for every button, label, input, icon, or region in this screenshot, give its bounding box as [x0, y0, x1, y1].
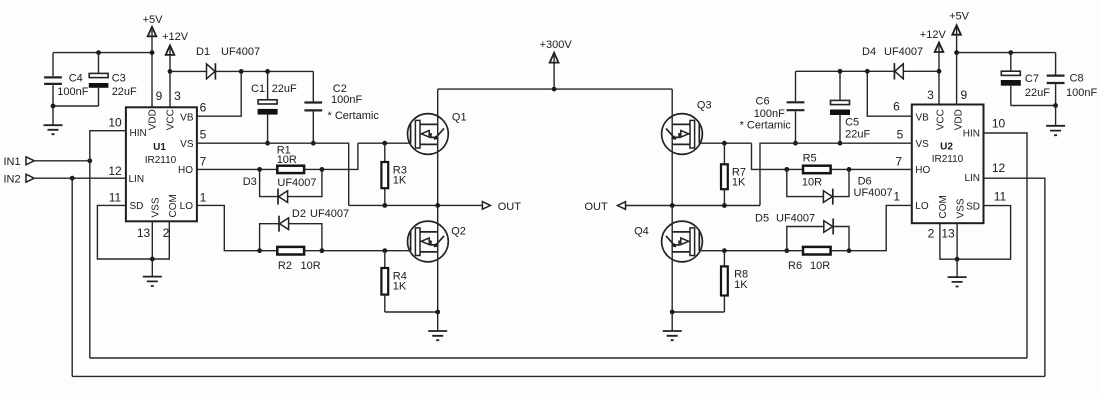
capacitor C3	[53, 53, 137, 106]
wire OUT left	[349, 204, 483, 206]
node R1 right junction	[320, 167, 325, 172]
svg-text:R6: R6	[788, 260, 802, 272]
svg-text:1K: 1K	[393, 175, 407, 187]
capacitor C8	[1047, 53, 1098, 106]
svg-text:IR2110: IR2110	[145, 155, 177, 166]
svg-text:11: 11	[994, 189, 1007, 203]
wire Q1 gate row	[358, 142, 411, 144]
node +5V/VDD junction U2	[954, 50, 959, 55]
svg-text:+300V: +300V	[540, 39, 573, 51]
node R6 right junction	[847, 248, 852, 253]
wire +5V rail to C4 C3	[53, 52, 152, 54]
svg-text:D1: D1	[196, 46, 210, 58]
node +12V/D1 junction	[168, 69, 173, 74]
node R1 left junction	[257, 167, 262, 172]
wire Q2 drain column	[437, 205, 439, 312]
wire bottom feedback lower	[72, 375, 1045, 377]
node C5 top junction	[838, 69, 843, 74]
node Q4 ground junction	[670, 310, 675, 315]
svg-text:U2: U2	[940, 142, 953, 153]
svg-text:C3: C3	[112, 73, 126, 85]
svg-text:IR2110: IR2110	[932, 154, 964, 165]
capacitor C2	[304, 71, 379, 143]
capacitor C7	[1001, 53, 1050, 106]
svg-text:OUT: OUT	[585, 201, 609, 213]
svg-text:+12V: +12V	[162, 31, 189, 43]
ground below U2	[948, 259, 967, 286]
resistor R5	[802, 153, 831, 189]
wire SD U1	[97, 205, 152, 259]
diode D2	[260, 208, 350, 251]
node +12V/D4 junction	[937, 69, 942, 74]
svg-text:VDD: VDD	[148, 109, 159, 130]
svg-text:1K: 1K	[732, 177, 746, 189]
wire C7 C8 ground join	[1011, 105, 1056, 107]
svg-text:100nF: 100nF	[1066, 87, 1097, 99]
svg-text:LIN: LIN	[964, 173, 980, 184]
svg-text:C5: C5	[845, 117, 859, 129]
+12V supply left	[162, 31, 189, 108]
node IN2 junction	[70, 176, 75, 181]
svg-text:U1: U1	[153, 142, 166, 153]
node D4/VB junction	[865, 69, 870, 74]
svg-text:22uF: 22uF	[1025, 87, 1050, 99]
wire HIN U2	[984, 133, 1028, 358]
wire Q1 drain-source column	[437, 89, 439, 205]
node R6 left junction	[784, 248, 789, 253]
svg-text:10: 10	[108, 116, 122, 130]
wire VB bootstrap riser U2	[867, 71, 912, 116]
node R7 bottom junction	[722, 203, 727, 208]
svg-text:COM: COM	[168, 194, 179, 217]
resistor R4	[381, 251, 407, 312]
transistor Q1	[408, 111, 467, 154]
node R7 top junction	[722, 141, 727, 146]
capacitor C6	[740, 71, 805, 143]
capacitor C4	[44, 53, 89, 106]
svg-text:C7: C7	[1025, 73, 1039, 85]
svg-text:VSS: VSS	[955, 198, 966, 218]
wire COM VSS U2	[940, 223, 957, 259]
svg-text:10R: 10R	[277, 154, 297, 166]
svg-text:LO: LO	[915, 201, 929, 212]
svg-text:* Certamic: * Certamic	[328, 110, 380, 122]
node +300V rail junction	[552, 87, 557, 92]
resistor R2	[260, 247, 411, 272]
svg-text:2: 2	[928, 227, 935, 241]
+5V supply left	[143, 14, 164, 107]
svg-text:UF4007: UF4007	[776, 213, 815, 225]
svg-text:VS: VS	[180, 139, 194, 150]
svg-text:HO: HO	[178, 165, 193, 176]
svg-text:100nF: 100nF	[754, 108, 785, 120]
svg-text:10R: 10R	[810, 260, 830, 272]
svg-text:100nF: 100nF	[331, 94, 362, 106]
node C2 bottom junction	[311, 141, 316, 146]
svg-text:VDD: VDD	[953, 109, 964, 130]
op-amp U1 IR2110	[126, 107, 197, 221]
svg-text:SD: SD	[966, 201, 980, 212]
svg-text:10: 10	[992, 116, 1006, 130]
svg-text:+5V: +5V	[949, 10, 970, 22]
svg-text:VSS: VSS	[151, 197, 162, 217]
transistor Q3	[662, 100, 712, 155]
wire SD U2	[957, 206, 1011, 260]
diode D4	[796, 46, 940, 80]
svg-text:R5: R5	[803, 153, 817, 165]
svg-text:* Certamic: * Certamic	[740, 120, 792, 132]
svg-text:9: 9	[156, 89, 163, 103]
wire LO pin1 U2	[849, 205, 912, 250]
svg-text:9: 9	[961, 88, 968, 102]
node R3 top junction	[382, 141, 387, 146]
node Q3 source OUT junction	[670, 203, 675, 208]
svg-text:OUT: OUT	[498, 201, 522, 213]
svg-text:22uF: 22uF	[272, 83, 297, 95]
wire HO pin7 U1	[197, 143, 358, 169]
ground below C8	[1046, 106, 1065, 136]
node D1/VB junction	[239, 69, 244, 74]
svg-text:6: 6	[200, 101, 207, 115]
svg-text:1K: 1K	[393, 281, 407, 293]
node C4 ground junction	[51, 104, 56, 109]
node Q1 source OUT junction	[435, 203, 440, 208]
+300V supply	[540, 39, 573, 89]
svg-text:3: 3	[174, 89, 181, 103]
node C3 top junction	[96, 50, 101, 55]
node U2 ground junction	[955, 257, 960, 262]
resistor R8	[721, 251, 748, 312]
node R2 left junction	[257, 248, 262, 253]
svg-text:10R: 10R	[802, 177, 822, 189]
node R5 right junction	[847, 167, 852, 172]
wire Q2 source to ground	[385, 311, 438, 313]
OUT terminal left	[482, 201, 521, 213]
node IN1 junction	[87, 158, 92, 163]
node U1 ground junction	[150, 257, 155, 262]
wire LIN U2	[984, 178, 1045, 376]
svg-text:D4: D4	[862, 46, 876, 58]
wire Q3 gate row	[699, 142, 751, 144]
wire VSS COM U1	[152, 221, 169, 259]
wire bottom feedback upper	[90, 357, 1027, 359]
svg-text:1: 1	[893, 190, 900, 204]
svg-text:R2: R2	[278, 260, 292, 272]
input IN2	[4, 173, 126, 185]
node C6 bottom junction	[793, 141, 798, 146]
node R3 bottom junction	[382, 203, 387, 208]
wire +5V rail right	[957, 52, 1056, 54]
diode D1	[170, 46, 313, 80]
transistor Q2	[408, 221, 466, 262]
svg-text:7: 7	[895, 155, 902, 169]
node R5 left junction	[784, 167, 789, 172]
svg-text:100nF: 100nF	[57, 86, 88, 98]
svg-text:D3: D3	[243, 176, 257, 188]
+12V supply right	[920, 29, 947, 105]
svg-text:SD: SD	[130, 201, 144, 212]
svg-text:Q2: Q2	[451, 225, 466, 237]
svg-text:C4: C4	[69, 73, 83, 85]
svg-text:VCC: VCC	[936, 109, 947, 130]
input IN1	[4, 156, 90, 168]
wire IN1 to HIN	[90, 131, 126, 161]
svg-text:13: 13	[137, 226, 151, 240]
svg-text:HIN: HIN	[963, 129, 980, 140]
svg-text:D6: D6	[858, 176, 872, 188]
svg-text:7: 7	[200, 155, 207, 169]
node C1 top junction	[265, 69, 270, 74]
svg-text:22uF: 22uF	[845, 129, 870, 141]
svg-text:UF4007: UF4007	[854, 187, 893, 199]
svg-text:C6: C6	[756, 96, 770, 108]
node R2 right junction	[320, 248, 325, 253]
ground below Q2	[428, 312, 447, 340]
svg-text:Q1: Q1	[452, 111, 467, 123]
svg-text:1: 1	[200, 190, 207, 204]
svg-text:D2: D2	[292, 208, 306, 220]
resistor R1	[277, 145, 304, 173]
svg-text:5: 5	[897, 128, 904, 142]
wire VS pin5 U1	[197, 143, 349, 205]
diode D5	[755, 213, 849, 251]
diode D3	[243, 169, 322, 204]
svg-text:1K: 1K	[734, 279, 748, 291]
wire IN1 feedback down	[89, 161, 91, 358]
node C1 bottom junction	[265, 141, 270, 146]
resistor R6	[699, 247, 849, 272]
svg-text:12: 12	[108, 164, 122, 178]
svg-text:UF4007: UF4007	[277, 177, 316, 189]
svg-text:HO: HO	[915, 165, 930, 176]
svg-text:IN1: IN1	[4, 156, 21, 168]
OUT terminal right	[585, 201, 626, 213]
ground below C4	[44, 106, 63, 134]
node R4 top junction	[382, 248, 387, 253]
wire +300V rail	[438, 88, 673, 90]
ground below U1	[143, 259, 162, 286]
svg-text:10R: 10R	[301, 260, 321, 272]
+5V supply right	[949, 10, 970, 104]
wire VB bootstrap riser U1	[197, 71, 241, 116]
node C5 bottom junction	[838, 141, 843, 146]
svg-text:VB: VB	[180, 113, 194, 124]
svg-text:+5V: +5V	[143, 14, 164, 26]
svg-text:C1: C1	[251, 83, 265, 95]
resistor R7	[721, 143, 746, 205]
svg-text:3: 3	[927, 88, 934, 102]
wire OUT right	[626, 205, 761, 207]
svg-text:12: 12	[992, 161, 1006, 175]
svg-text:IN2: IN2	[4, 173, 21, 185]
wire Q4 source to ground	[672, 311, 724, 313]
svg-text:VCC: VCC	[165, 109, 176, 130]
svg-text:UF4007: UF4007	[221, 46, 260, 58]
svg-text:22uF: 22uF	[112, 86, 137, 98]
svg-text:D5: D5	[755, 213, 769, 225]
svg-text:UF4007: UF4007	[310, 208, 349, 220]
svg-text:6: 6	[893, 100, 900, 114]
node +5V/VDD junction	[150, 50, 155, 55]
svg-text:5: 5	[200, 128, 207, 142]
resistor R3	[381, 143, 407, 205]
wire HO pin7 U2	[752, 143, 912, 169]
node Q2 ground junction	[435, 310, 440, 315]
svg-text:HIN: HIN	[130, 128, 147, 139]
svg-text:11: 11	[109, 190, 122, 204]
svg-text:VS: VS	[916, 139, 930, 150]
svg-text:C8: C8	[1070, 73, 1084, 85]
svg-text:COM: COM	[938, 195, 949, 218]
op-amp U2 IR2110	[912, 105, 984, 224]
wire Q3 drain-source column	[671, 89, 673, 205]
diode D6	[787, 169, 893, 204]
node C7 top junction	[1008, 50, 1013, 55]
node R8 top junction	[722, 248, 727, 253]
svg-text:UF4007: UF4007	[884, 46, 923, 58]
svg-text:Q4: Q4	[634, 225, 649, 237]
ground below Q4	[663, 312, 682, 340]
wire Q4 drain column	[671, 206, 673, 313]
svg-text:13: 13	[941, 227, 955, 241]
wire VS pin5 U2	[760, 143, 912, 205]
svg-text:LIN: LIN	[129, 174, 145, 185]
svg-text:LO: LO	[180, 201, 194, 212]
svg-text:VB: VB	[916, 113, 930, 124]
svg-text:+12V: +12V	[920, 29, 947, 41]
capacitor C5	[830, 71, 870, 143]
wire IN2 feedback down	[71, 178, 73, 376]
capacitor C1	[251, 71, 297, 143]
svg-text:Q3: Q3	[697, 100, 712, 112]
wire LO pin1 U1	[197, 205, 260, 250]
transistor Q4	[634, 221, 702, 262]
node C8 ground junction	[1053, 103, 1058, 108]
